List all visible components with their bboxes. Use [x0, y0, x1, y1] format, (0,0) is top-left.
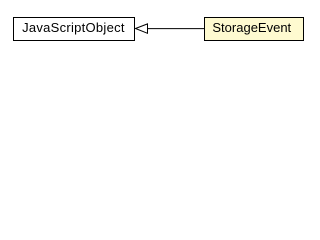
wire: [147, 28, 205, 30]
svg-text:JavaScriptObject: JavaScriptObject: [22, 20, 125, 35]
node StorageEvent: [205, 18, 304, 41]
inheritance arrowhead: [136, 24, 148, 33]
svg-text:StorageEvent: StorageEvent: [212, 20, 291, 35]
node JavaScriptObject: [14, 18, 135, 41]
